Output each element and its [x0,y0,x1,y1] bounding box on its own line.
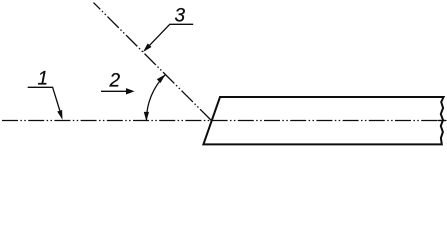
svg-text:1: 1 [38,69,49,90]
svg-text:3: 3 [175,6,186,27]
svg-text:2: 2 [109,71,121,92]
